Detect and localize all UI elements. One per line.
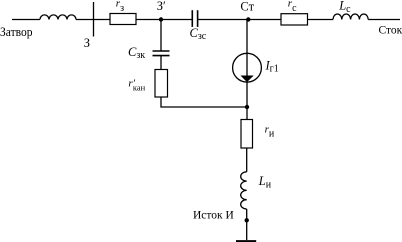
wire [160, 20, 162, 52]
wire [246, 148, 248, 172]
inductor L_с [333, 14, 368, 19]
svg-text:Затвор: Затвор [0, 25, 33, 39]
wire [308, 19, 334, 21]
svg-text:Lи: Lи [258, 174, 272, 190]
svg-text:Cзс: Cзс [190, 26, 207, 42]
resistor r_с [281, 14, 308, 25]
wire [198, 19, 281, 21]
svg-text:Ст: Ст [240, 0, 254, 14]
svg-text:Сток: Сток [379, 25, 402, 37]
node Исток [245, 218, 249, 222]
svg-text:Iг1: Iг1 [265, 58, 279, 74]
wire [12, 19, 40, 21]
wire [136, 19, 192, 21]
electrode tick З [93, 2, 95, 37]
capacitor C_зк [153, 50, 170, 52]
wire [246, 20, 248, 54]
current source I_г1 [233, 53, 262, 82]
svg-text:З′: З′ [157, 0, 166, 13]
resistor r'_кан [155, 70, 168, 98]
svg-text:Исток И: Исток И [193, 209, 234, 221]
inductor L_и [241, 172, 247, 209]
wire [160, 56, 162, 70]
node З' [159, 17, 163, 21]
wire [246, 209, 248, 240]
wire [76, 19, 110, 21]
inductor (gate lead) [40, 15, 76, 20]
resistor r_и [241, 120, 253, 149]
wire [368, 19, 400, 21]
wire [161, 97, 247, 107]
svg-text:З: З [84, 36, 90, 50]
ground [236, 240, 256, 242]
resistor r_з [110, 14, 136, 25]
svg-text:rз: rз [116, 0, 124, 14]
svg-text:Cзк: Cзк [128, 45, 145, 61]
svg-text:rи: rи [265, 124, 275, 140]
capacitor C_зс [191, 10, 193, 27]
wire [246, 82, 248, 119]
junction node [245, 105, 249, 109]
node Ст [246, 17, 250, 21]
svg-text:r′кан: r′кан [128, 78, 145, 93]
svg-text:Lс: Lс [338, 0, 351, 15]
svg-text:rс: rс [288, 0, 297, 14]
